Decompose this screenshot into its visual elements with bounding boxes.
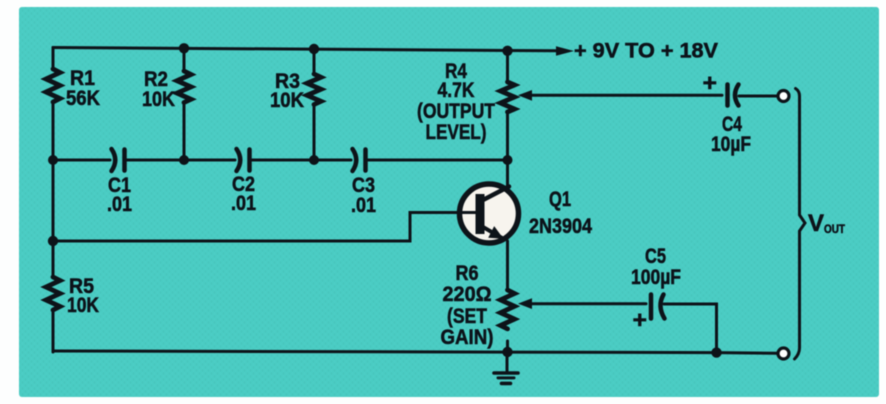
wire emitter bbox=[506, 241, 509, 290]
svg-text:10K: 10K bbox=[142, 88, 175, 111]
wire row2 segment a bbox=[53, 159, 110, 162]
svg-text:R6: R6 bbox=[456, 262, 479, 285]
svg-text:C5: C5 bbox=[645, 245, 666, 268]
wire left rail upper bbox=[52, 48, 55, 70]
svg-text:(OUTPUT: (OUTPUT bbox=[417, 100, 495, 123]
svg-text:.01: .01 bbox=[351, 194, 376, 217]
capacitor C1 bbox=[112, 149, 125, 171]
svg-text:56K: 56K bbox=[66, 87, 100, 110]
wire C5 to bottom rail bbox=[664, 304, 717, 352]
svg-text:2N3904: 2N3904 bbox=[529, 215, 592, 238]
terminal bottom bbox=[778, 348, 789, 359]
potentiometer R6 bbox=[501, 290, 515, 352]
wire left rail middle bbox=[52, 102, 55, 277]
svg-text:V: V bbox=[808, 210, 824, 237]
capacitor C3 bbox=[353, 149, 366, 171]
svg-text:10K: 10K bbox=[270, 89, 304, 112]
svg-text:10µF: 10µF bbox=[711, 133, 751, 156]
wire right rail with Vout kink bbox=[795, 89, 806, 360]
svg-text:+ 9V TO + 18V: + 9V TO + 18V bbox=[574, 40, 718, 63]
svg-text:10K: 10K bbox=[67, 294, 99, 317]
wire row2 segment c bbox=[250, 159, 351, 162]
wire row2 segment d bbox=[366, 159, 508, 162]
resistor R3 bbox=[307, 49, 321, 160]
wire R6 wiper to C5 bbox=[530, 302, 646, 305]
svg-text:(SET: (SET bbox=[447, 305, 487, 328]
node base row left bbox=[48, 236, 58, 246]
node bottom emitter bbox=[502, 347, 512, 357]
svg-text:220Ω: 220Ω bbox=[443, 283, 492, 306]
wire top rail bbox=[53, 48, 557, 51]
svg-text:4.7K: 4.7K bbox=[438, 79, 475, 102]
arrow R4 wiper bbox=[518, 90, 532, 101]
node row2 R4 collector bbox=[503, 155, 513, 165]
svg-text:GAIN): GAIN) bbox=[441, 326, 494, 349]
resistor R2 bbox=[177, 48, 191, 160]
wire left rail lower bbox=[52, 310, 55, 352]
capacitor C2 bbox=[237, 149, 250, 171]
arrow R6 wiper bbox=[518, 298, 532, 309]
wire collector bbox=[506, 160, 509, 189]
svg-text:+: + bbox=[633, 307, 648, 334]
svg-text:OUT: OUT bbox=[824, 222, 846, 236]
wire base row with step bbox=[53, 213, 474, 242]
node row2 left bbox=[48, 155, 58, 165]
arrow supply bbox=[556, 46, 574, 55]
ground bbox=[494, 352, 518, 383]
svg-text:+: + bbox=[703, 70, 718, 97]
node row2 R2 bbox=[179, 155, 189, 165]
wire bottom rail bbox=[53, 351, 777, 353]
wire C4 to terminal bbox=[739, 95, 776, 98]
node top rail R3 bbox=[309, 44, 319, 54]
capacitor C4 bbox=[728, 85, 739, 106]
arrow Q1 emitter bbox=[488, 226, 503, 239]
svg-text:.01: .01 bbox=[107, 193, 132, 216]
terminal top bbox=[778, 91, 789, 102]
transistor Q1 bbox=[457, 184, 519, 243]
svg-text:100µF: 100µF bbox=[631, 266, 681, 289]
node row2 R3 bbox=[309, 155, 319, 165]
potentiometer R4 bbox=[501, 51, 515, 160]
resistor R1 bbox=[46, 69, 60, 102]
node bottom C5 bbox=[711, 347, 721, 357]
svg-text:.01: .01 bbox=[231, 192, 256, 215]
wire R4 wiper to C4 bbox=[530, 94, 722, 97]
wire row2 segment b bbox=[125, 159, 235, 162]
svg-text:Q1: Q1 bbox=[549, 188, 571, 211]
node top rail R4 bbox=[502, 46, 512, 56]
capacitor C5 bbox=[651, 295, 665, 319]
node top rail R2 bbox=[179, 43, 189, 53]
svg-text:LEVEL): LEVEL) bbox=[426, 121, 487, 144]
resistor R5 bbox=[46, 277, 60, 310]
